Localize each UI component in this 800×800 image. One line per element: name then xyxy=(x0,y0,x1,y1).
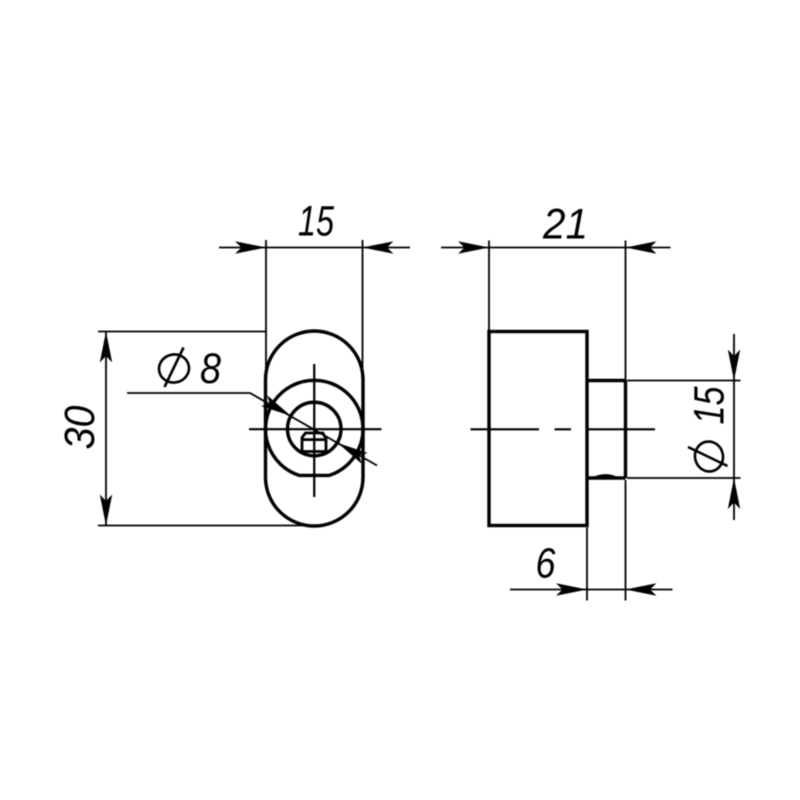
svg-text:8: 8 xyxy=(200,345,221,393)
dim 6 line xyxy=(510,589,673,591)
dim 6 extension left xyxy=(586,528,588,601)
dim 6 arrow left xyxy=(556,583,587,595)
dim 15 arrow right xyxy=(363,241,394,253)
svg-text:30: 30 xyxy=(56,405,104,449)
dim 6 arrow right xyxy=(626,583,657,595)
dim D15 arrow top xyxy=(728,350,740,381)
dim D8 leader xyxy=(127,393,377,466)
dim 30 arrow bottom xyxy=(100,495,112,526)
dim 30 extension bottom xyxy=(98,525,311,527)
centerline horizontal front xyxy=(249,428,382,430)
centerline vertical front xyxy=(313,364,315,497)
dim 30 extension top xyxy=(98,331,267,333)
dim D15 extension bottom xyxy=(627,477,741,479)
dim 21 extension right xyxy=(625,241,627,383)
boss circle D15 with bottom flat xyxy=(265,380,363,475)
dim 15 extension right xyxy=(362,240,364,386)
knob body rectangle xyxy=(489,332,587,526)
svg-text:6: 6 xyxy=(536,540,556,588)
dim D15 line xyxy=(733,334,735,520)
dim 21 line xyxy=(441,247,671,249)
dim 21 arrow right xyxy=(626,241,657,253)
dim 21 extension left xyxy=(488,241,490,334)
boss right edge xyxy=(624,381,627,479)
diameter symbol for 8 xyxy=(156,348,191,388)
knob body outline (stadium) xyxy=(266,331,364,526)
boss top edge xyxy=(587,379,626,382)
dim D15 extension top xyxy=(627,380,741,382)
dim 30 arrow top xyxy=(100,332,112,363)
svg-text:15: 15 xyxy=(686,386,734,425)
diameter symbol for 15 xyxy=(688,439,728,474)
keyhole circle D8 xyxy=(288,402,342,456)
dim 15 arrow left xyxy=(235,241,266,253)
svg-text:15: 15 xyxy=(298,198,335,246)
dim 30 line xyxy=(105,332,107,526)
dim 15 line xyxy=(219,247,410,249)
dim 6 extension right xyxy=(625,480,627,601)
boss bottom edge xyxy=(587,476,626,479)
dim D8 arrow lower xyxy=(335,438,368,464)
dim D15 arrow bottom xyxy=(728,478,740,509)
key slot shape xyxy=(302,433,326,452)
dim D8 arrow upper xyxy=(261,395,294,421)
svg-text:21: 21 xyxy=(542,201,588,249)
dim 15 extension left xyxy=(265,240,267,386)
dim 21 arrow left xyxy=(458,241,489,253)
centerline side view xyxy=(471,428,656,430)
boss flat silhouette arc xyxy=(590,474,621,479)
